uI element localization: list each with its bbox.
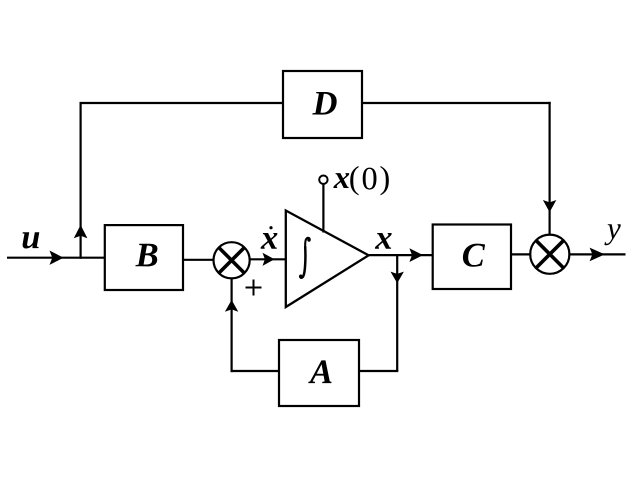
arrowhead into C bbox=[409, 248, 423, 262]
arrowhead up toward D bbox=[74, 225, 88, 238]
block A bbox=[279, 340, 359, 406]
label D bbox=[312, 92, 336, 115]
wire: A output left horizontal bbox=[231, 370, 280, 372]
block C bbox=[433, 225, 511, 290]
summer 2 circle bbox=[530, 235, 569, 274]
label y bbox=[604, 224, 620, 245]
label x of x(0) bbox=[333, 173, 349, 188]
arrowhead into integrator bbox=[263, 253, 275, 266]
wire: vertical down to output summer bbox=[548, 102, 550, 236]
wire: summer 1 to integrator bbox=[250, 258, 286, 260]
dot of xdot bbox=[269, 226, 272, 229]
wire: feedback vertical up into summer 1 bbox=[231, 278, 233, 373]
label ) of x(0) bbox=[381, 166, 389, 195]
wire: output y line bbox=[568, 253, 625, 255]
label C bbox=[463, 244, 485, 267]
wire: vertical up to D row bbox=[79, 103, 81, 259]
block B bbox=[105, 225, 183, 290]
label + for summer 1 bbox=[246, 280, 262, 296]
integrator triangle U1 bbox=[286, 211, 369, 308]
wire: integrator output to C bbox=[369, 254, 433, 256]
arrowhead down on feedback drop bbox=[391, 272, 404, 284]
arrowhead on u wire bbox=[50, 251, 64, 265]
initial-condition terminal circle bbox=[319, 176, 327, 184]
label x state bbox=[375, 233, 392, 249]
wire: D row left horizontal bbox=[80, 102, 284, 104]
wire: C to summer 2 bbox=[511, 253, 531, 255]
label A bbox=[308, 360, 331, 383]
label ( of x(0) bbox=[350, 166, 358, 195]
wire: B to summer 1 bbox=[183, 259, 215, 261]
wire: D row right horizontal bbox=[362, 102, 551, 104]
wire: feedback to A right side bbox=[359, 370, 398, 372]
arrowhead on output bbox=[590, 248, 605, 262]
summer 1 circle bbox=[214, 242, 250, 278]
wire: initial condition into integrator bbox=[322, 184, 324, 233]
label xdot (x part) bbox=[261, 233, 278, 249]
label B bbox=[135, 244, 157, 267]
label 0 of x(0) bbox=[363, 168, 377, 190]
integral sign of U1 bbox=[300, 238, 310, 278]
summer 2 X cross bbox=[536, 240, 564, 268]
summer 1 X cross bbox=[219, 248, 245, 274]
label u bbox=[23, 232, 40, 248]
arrowhead down into output summer bbox=[543, 200, 556, 212]
wire: vertical down from state junction bbox=[396, 255, 398, 371]
block D bbox=[283, 71, 362, 138]
arrowhead up into summer 1 bbox=[225, 300, 238, 312]
wire: input u line bbox=[7, 257, 105, 259]
